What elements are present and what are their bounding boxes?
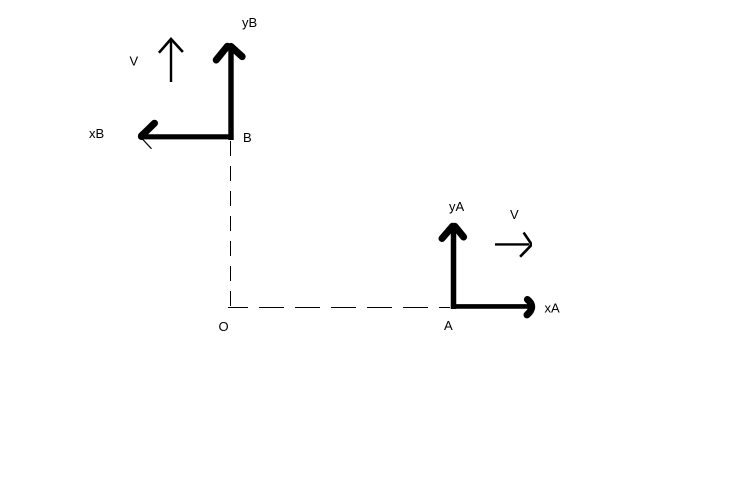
svg-text:yB: yB — [242, 15, 257, 30]
svg-text:B: B — [243, 130, 252, 145]
svg-text:yA: yA — [449, 199, 465, 214]
svg-text:V: V — [130, 54, 139, 69]
svg-text:O: O — [219, 319, 229, 334]
svg-text:xA: xA — [545, 301, 561, 316]
svg-text:A: A — [444, 318, 453, 333]
svg-text:V: V — [510, 207, 519, 222]
svg-text:xB: xB — [89, 126, 104, 141]
